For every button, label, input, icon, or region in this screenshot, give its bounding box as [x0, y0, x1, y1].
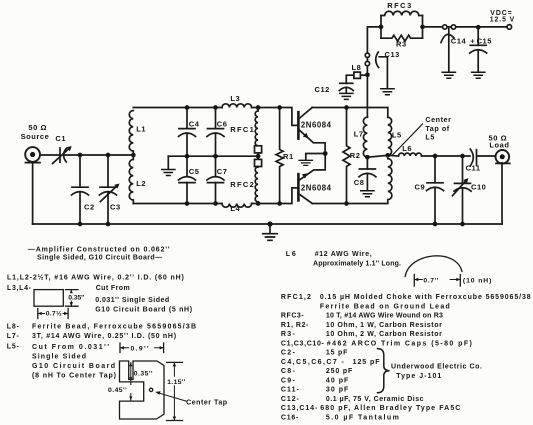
- L6 0.7in dimension: [414, 275, 460, 287]
- capacitor C3 (variable): [100, 184, 120, 202]
- svg-text:Single Sided, G10 Circuit Boar: Single Sided, G10 Circuit Board—: [37, 255, 163, 262]
- brace for Underwood parts: [378, 349, 390, 393]
- svg-text:Center Tap: Center Tap: [186, 400, 228, 407]
- transistor Q1 2N6084: [298, 108, 325, 154]
- svg-text:50 Ω: 50 Ω: [28, 123, 47, 132]
- svg-text:2N6084: 2N6084: [301, 121, 332, 130]
- svg-text:250 pF: 250 pF: [326, 368, 353, 375]
- terminal VDC: [507, 25, 512, 30]
- svg-text:30 pF: 30 pF: [326, 387, 349, 394]
- L3/L4 cut strip drawing: [34, 290, 63, 307]
- svg-text:C15: C15: [477, 36, 492, 45]
- svg-text:15 pF: 15 pF: [326, 350, 348, 357]
- inductor L2: [129, 155, 133, 204]
- svg-text:Load: Load: [489, 141, 509, 150]
- svg-text:#462 ARCO Trim Caps (5-80 pF): #462 ARCO Trim Caps (5-80 pF): [327, 340, 474, 347]
- svg-text:C12-: C12-: [281, 396, 300, 403]
- L5 1.15in dimension: [167, 362, 183, 420]
- junction RFC3 left node: [379, 25, 384, 30]
- svg-text:C8-: C8-: [281, 368, 296, 375]
- svg-text:0.45'': 0.45'': [108, 387, 127, 394]
- wire top base line L3 to Q1 base bend: [252, 108, 298, 126]
- wire rail ground stub: [269, 224, 271, 233]
- svg-text:C2-: C2-: [281, 350, 296, 357]
- svg-text:RFC3-: RFC3-: [281, 313, 304, 320]
- resistor R2: [343, 108, 350, 204]
- feedthrough capacitor C14: [441, 25, 456, 78]
- wire bottom ground rail: [33, 223, 502, 225]
- svg-text:C4: C4: [189, 120, 200, 129]
- svg-text:RFC1,2: RFC1,2: [281, 294, 312, 301]
- junction C9 on ground rail: [433, 222, 438, 227]
- svg-text:10 Ohm, 1 W, Carbon Resistor: 10 Ohm, 1 W, Carbon Resistor: [326, 322, 443, 329]
- junction R2 bottom: [344, 201, 349, 206]
- svg-text:C4,C5,C6,C7 -: C4,C5,C6,C7 -: [281, 359, 345, 366]
- wire C5 leads: [186, 156, 188, 203]
- ground (emitters): [299, 154, 325, 166]
- junction R1 on top base line: [277, 105, 282, 110]
- junction RFC beads on ground bus: [256, 154, 261, 159]
- svg-text:0.15 µH Molded Choke with Ferr: 0.15 µH Molded Choke with Ferroxcube 565…: [320, 294, 532, 301]
- L5 0.45in dimension arrows: [130, 383, 132, 400]
- svg-text:R1: R1: [283, 152, 294, 161]
- junction C2 on ground rail: [78, 222, 83, 227]
- svg-text:C7: C7: [217, 167, 228, 176]
- L5 center tap callout arrow: [155, 391, 186, 401]
- svg-text:+: +: [470, 37, 475, 46]
- junction C10 on output line: [460, 154, 465, 159]
- wire bottom base line L4 to Q2 base bend: [252, 188, 298, 204]
- inductor L1: [129, 111, 133, 156]
- svg-text:L3: L3: [230, 94, 240, 103]
- svg-text:L7: L7: [354, 130, 364, 139]
- wire center tap of L5 to L7/C8 node: [367, 155, 387, 157]
- svg-text:C3: C3: [110, 203, 121, 212]
- capacitor C4: [179, 129, 196, 137]
- svg-text:Approximately 1.1'' Long.: Approximately 1.1'' Long.: [313, 260, 401, 267]
- L6 wire arc drawing: [405, 256, 462, 277]
- svg-text:#12 AWG Wire,: #12 AWG Wire,: [315, 251, 373, 258]
- wire source drop to ground rail: [32, 162, 34, 224]
- capacitor C2: [72, 187, 89, 195]
- ground (bottom rail): [263, 234, 278, 241]
- svg-text:0.35'': 0.35'': [68, 295, 84, 302]
- svg-text:C12: C12: [315, 85, 330, 94]
- svg-text:Ferrite Bead, Ferroxcube 56590: Ferrite Bead, Ferroxcube 5659065/3B: [32, 323, 197, 330]
- wire C2 column: [79, 155, 81, 224]
- svg-text:L4: L4: [230, 204, 240, 213]
- svg-text:C9-: C9-: [281, 377, 296, 384]
- capacitor C7: [207, 177, 224, 183]
- wire middle bus ground stub: [167, 156, 169, 169]
- svg-text:0.35'': 0.35'': [134, 371, 153, 378]
- svg-text:Underwood Electric Co.: Underwood Electric Co.: [391, 364, 483, 371]
- junction C6/C7 on ground bus: [213, 154, 218, 159]
- inductor L6: [399, 153, 422, 156]
- wire collector line Q1 to L5 top: [312, 108, 388, 118]
- junction C5 on bottom base line: [185, 201, 190, 206]
- junction RFC1 on top base line: [256, 105, 261, 110]
- svg-text:C1: C1: [55, 134, 66, 143]
- svg-text:2N6084: 2N6084: [301, 184, 332, 193]
- svg-text:C5: C5: [189, 167, 200, 176]
- svg-text:12.5 V: 12.5 V: [490, 16, 515, 23]
- ferrite bead of RFC2: [255, 159, 262, 166]
- wire C10 column: [462, 156, 464, 224]
- transistor Q2 2N6084: [298, 154, 325, 204]
- wire L8 to feed line: [360, 74, 367, 76]
- ferrite bead of RFC1: [255, 146, 262, 153]
- ferrite bead L8: [354, 72, 361, 78]
- svg-text:0.7'': 0.7'': [423, 277, 439, 284]
- dim 1.15 of L5 drawing: [167, 377, 188, 386]
- callout line Center Tap of L5: [392, 124, 422, 155]
- L3/L4 0.35in dimension: [66, 290, 79, 307]
- svg-text:C10: C10: [471, 183, 486, 192]
- svg-text:L2: L2: [136, 179, 146, 188]
- wire L8 to C12: [346, 75, 354, 83]
- SCHEMATIC-WIRES: [33, 27, 507, 234]
- inductor L3: [222, 104, 252, 108]
- svg-text:680 pF, Allen Bradley Type FA5: 680 pF, Allen Bradley Type FA5C: [320, 405, 461, 412]
- svg-text:0.031'' Single Sided: 0.031'' Single Sided: [95, 297, 169, 304]
- svg-text:L5-: L5-: [7, 344, 20, 351]
- svg-text:C9: C9: [415, 183, 426, 192]
- junction C4 on top base line: [185, 105, 190, 110]
- junction C6 on top base line: [213, 105, 218, 110]
- wire collector line Q2 to L5 bottom: [312, 200, 388, 204]
- svg-text:Cut From 0.031'': Cut From 0.031'': [32, 344, 111, 351]
- junction ground tap on rail: [267, 221, 272, 226]
- wire input line source to C1: [40, 154, 60, 156]
- junction C3 top on input line: [106, 153, 111, 158]
- svg-text:3T, #14 AWG Wire, 0.25'' I.D.: 3T, #14 AWG Wire, 0.25'' I.D. (50 nH): [32, 333, 177, 340]
- svg-text:L5: L5: [425, 132, 435, 141]
- wire power line RFC3 to VDC terminal: [423, 26, 508, 28]
- capacitor C6: [207, 129, 224, 137]
- svg-text:10 T, #14 AWG Wire Wound on R3: 10 T, #14 AWG Wire Wound on R3: [326, 313, 443, 320]
- svg-text:L1,L2-2½T, #16 AWG Wire, 0.2'': L1,L2-2½T, #16 AWG Wire, 0.2'' I.D. (60 …: [7, 274, 185, 282]
- junction C4/C5 on ground bus: [185, 154, 190, 159]
- svg-text:RFC2: RFC2: [230, 180, 255, 189]
- inductor L5 upper half: [388, 117, 392, 155]
- svg-text:C13,C14-: C13,C14-: [281, 405, 318, 412]
- wire C7 leads: [215, 156, 217, 203]
- svg-text:0.7½: 0.7½: [46, 310, 62, 318]
- capacitor C5: [179, 177, 196, 183]
- svg-text:C8: C8: [354, 178, 365, 187]
- wire top base line L1 to L3: [133, 107, 222, 109]
- svg-text:L6: L6: [286, 251, 298, 258]
- svg-text:RFC1: RFC1: [230, 125, 255, 134]
- capacitor C11 (series): [470, 149, 476, 166]
- junction R1 on bottom base line: [277, 201, 282, 206]
- inductor L7: [363, 117, 367, 157]
- svg-text:R3-: R3-: [281, 331, 296, 338]
- inductor L5 lower half: [388, 159, 392, 200]
- wire L6 output line to C11: [422, 155, 470, 157]
- wire C3 column: [107, 155, 109, 224]
- ground (middle bus): [162, 170, 175, 176]
- L5 0.35in dimension arrows: [130, 363, 132, 381]
- svg-text:0.1 µF, 75 V, Ceramic Disc: 0.1 µF, 75 V, Ceramic Disc: [326, 396, 424, 403]
- dim 0.7 of L3 strip: [45, 309, 63, 317]
- svg-text:40 pF: 40 pF: [326, 377, 349, 384]
- dim 0.45 of L5 drawing: [107, 385, 138, 394]
- wire C11 to load: [477, 155, 496, 157]
- svg-text:C11-: C11-: [281, 387, 300, 394]
- DETAIL DRAWINGS: [34, 256, 462, 421]
- svg-text:R3: R3: [396, 40, 407, 49]
- L3/L4 0.7in dimension: [38, 309, 68, 319]
- wire bottom base line L2 to L4: [133, 203, 222, 205]
- junction L7/C8 node: [365, 155, 370, 160]
- svg-text:Cut From: Cut From: [96, 285, 130, 292]
- svg-text:G10 Circuit Board: G10 Circuit Board: [32, 363, 117, 370]
- svg-text:(8 nH To Center Tap): (8 nH To Center Tap): [32, 372, 117, 379]
- svg-text:0.9'': 0.9'': [131, 345, 150, 352]
- svg-text:Type J-101: Type J-101: [396, 373, 442, 380]
- svg-text:Single Sided: Single Sided: [32, 353, 87, 360]
- wire C6 leads: [215, 108, 217, 157]
- svg-text:C6: C6: [217, 120, 228, 129]
- svg-text:C16-: C16-: [281, 414, 299, 421]
- wire C13 lead to ground: [379, 57, 387, 89]
- svg-text:R2: R2: [350, 151, 361, 160]
- wire C8 lead to ground: [366, 157, 368, 190]
- svg-text:L5: L5: [392, 131, 402, 140]
- connector J2 50ohm load: [496, 150, 510, 164]
- L5 cut shape drawing: [120, 361, 165, 419]
- capacitor C12: [339, 83, 353, 99]
- svg-text:Source: Source: [21, 132, 50, 141]
- capacitor C8: [359, 169, 376, 197]
- svg-text:L8: L8: [352, 63, 362, 72]
- capacitor C15 (electrolytic): [470, 45, 487, 78]
- svg-text:C14: C14: [451, 36, 467, 45]
- L5 center tap hole: [149, 388, 152, 391]
- junction C7 on bottom base line: [213, 201, 218, 206]
- choke RFC1: [255, 108, 258, 146]
- svg-text:—Amplifier Constructed on 0.06: —Amplifier Constructed on 0.062'': [28, 247, 171, 254]
- wire C12 lead to ground: [345, 88, 347, 93]
- junction RFC2 on bottom base line: [256, 201, 261, 206]
- wire grounded middle bus: [168, 155, 258, 157]
- choke RFC3 with resistor R3 in parallel: [381, 11, 423, 41]
- svg-text:1.15'': 1.15'': [167, 379, 185, 386]
- svg-text:L3,L4-: L3,L4-: [7, 285, 32, 292]
- inductor L4: [222, 204, 252, 208]
- junction C15 tap on supply line: [476, 25, 481, 30]
- junction C2 top on input line: [78, 153, 83, 158]
- SCHEMATIC-PARTS: [25, 11, 511, 240]
- resistor R1: [276, 108, 283, 204]
- capacitor C9: [427, 183, 444, 191]
- L5 0.9in dimension: [120, 343, 164, 353]
- svg-text:L6: L6: [402, 144, 412, 153]
- svg-text:10 Ohm, 2 W, Carbon Resistor: 10 Ohm, 2 W, Carbon Resistor: [326, 331, 443, 338]
- wire C15 leads: [477, 27, 479, 72]
- wire RFC1 bead link across bus: [257, 153, 259, 160]
- capacitor C1 (variable, series): [53, 146, 72, 164]
- capacitor C10 (variable): [453, 178, 472, 196]
- junction C3 on ground rail: [106, 222, 111, 227]
- svg-text:L8-: L8-: [7, 323, 20, 330]
- junction emitters node: [323, 151, 328, 156]
- svg-text:C11: C11: [466, 164, 481, 173]
- svg-text:C13: C13: [385, 50, 400, 59]
- svg-text:R1, R2-: R1, R2-: [281, 322, 309, 329]
- junction L8 on feed line: [365, 72, 370, 77]
- svg-text:125 pF: 125 pF: [353, 359, 381, 366]
- dim 0.35 of L3 strip: [68, 293, 85, 301]
- junction R2 top: [344, 105, 349, 110]
- svg-text:L7-: L7-: [7, 333, 20, 340]
- wire power feed from RFC3 down (crosses collector line): [367, 27, 381, 117]
- wire C4 leads: [186, 108, 188, 157]
- feedthrough capacitor C13: [365, 52, 394, 95]
- junction C10 on ground rail: [460, 222, 465, 227]
- svg-text:C1,C3,C10-: C1,C3,C10-: [281, 340, 325, 347]
- wire load drop to ground rail: [501, 163, 503, 224]
- svg-text:RFC3: RFC3: [387, 1, 413, 10]
- svg-text:L1: L1: [136, 124, 146, 133]
- svg-text:Ferrite Bead on Ground Lead: Ferrite Bead on Ground Lead: [320, 303, 451, 310]
- svg-text:G10 Circuit Board (5 nH): G10 Circuit Board (5 nH): [95, 307, 193, 314]
- node center tap of L5: [385, 153, 390, 158]
- wire C1 to L1/L2 junction: [65, 154, 134, 156]
- junction L1/L2 tap node: [131, 153, 136, 158]
- svg-text:5.0 µF Tantalum: 5.0 µF Tantalum: [326, 414, 400, 421]
- wire C14 feedthrough drop to ground: [448, 27, 450, 72]
- junction RFC3 right node: [420, 25, 425, 30]
- wire C9 column: [434, 156, 436, 224]
- svg-text:(10 nH): (10 nH): [463, 278, 492, 285]
- svg-text:C2: C2: [84, 203, 95, 212]
- choke RFC2: [255, 167, 258, 204]
- connector J1 50ohm source: [25, 147, 40, 163]
- junction C9 on output line: [433, 154, 438, 159]
- wire center tap to L6: [388, 154, 399, 157]
